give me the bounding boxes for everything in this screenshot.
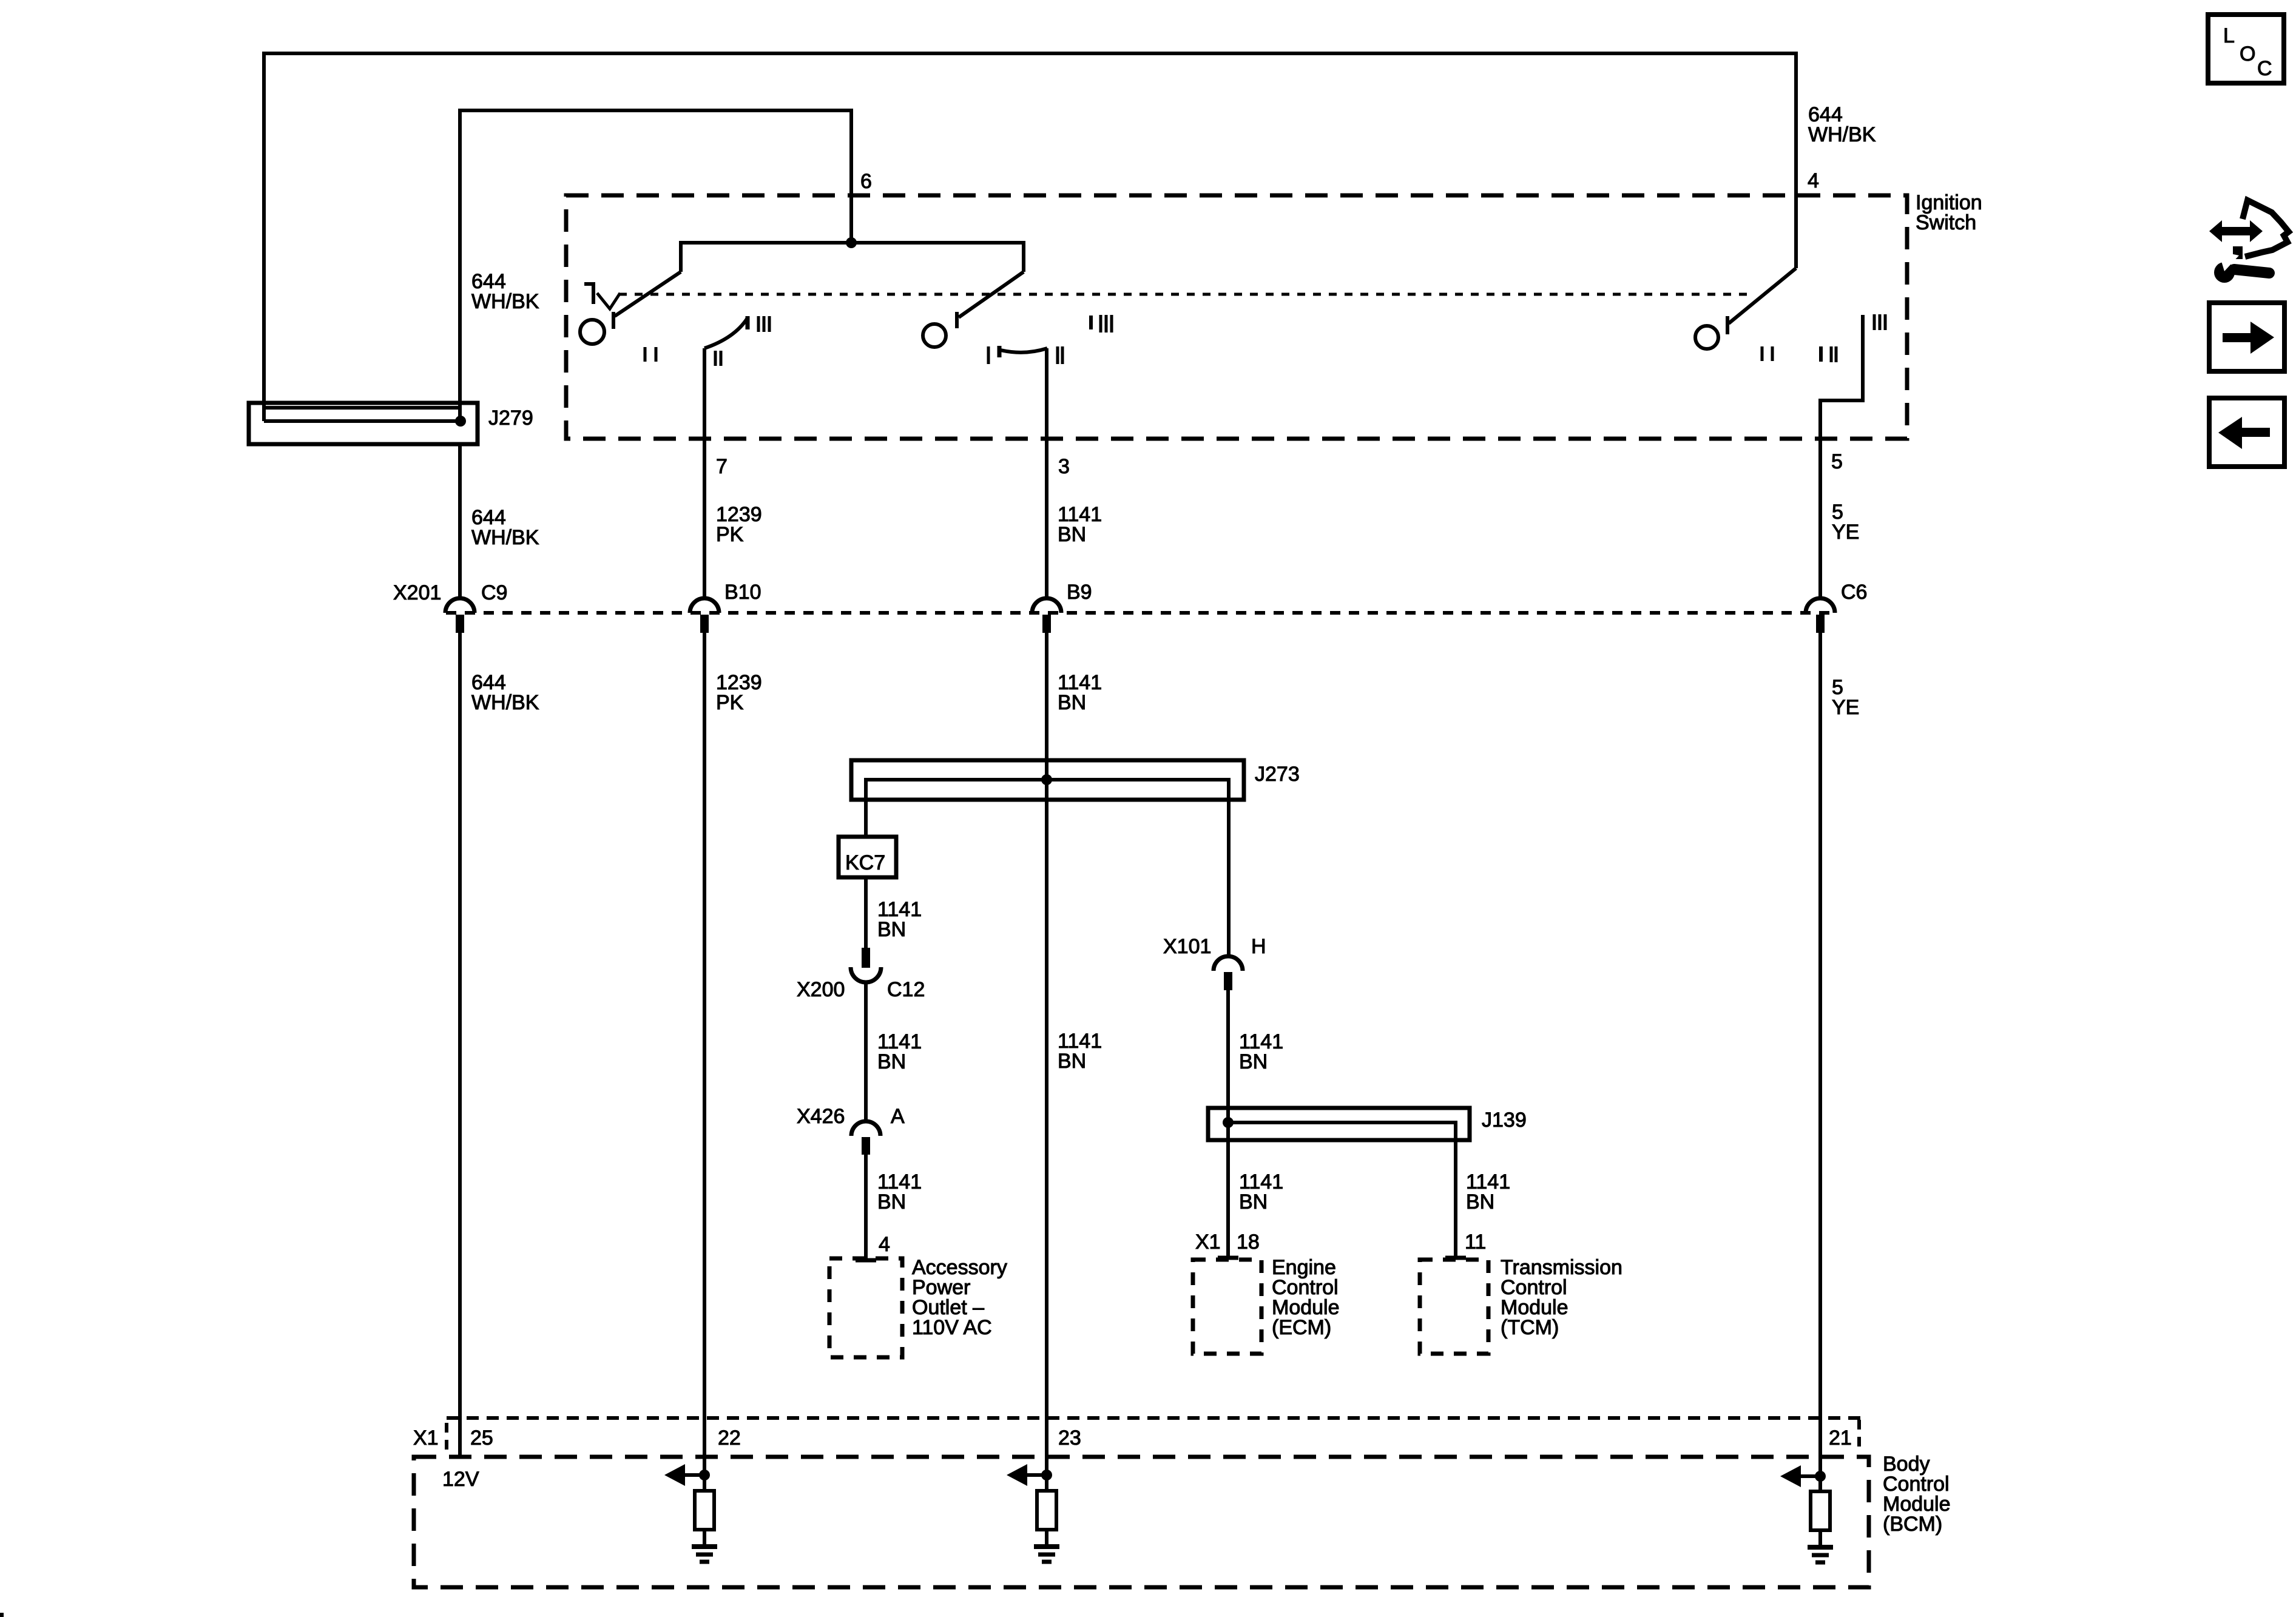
svg-text:18: 18 xyxy=(1237,1230,1260,1254)
component view icon: double arrow xyxy=(2209,220,2263,242)
BCM pin 22 arrow xyxy=(684,1473,704,1477)
detent marks pole 3 xyxy=(988,346,1062,364)
ground (pin 22) xyxy=(692,1544,717,1549)
svg-text:WH/BK: WH/BK xyxy=(471,290,539,313)
wire 1141 BN to BCM 23 xyxy=(1045,633,1048,1475)
wire 1239 PK to BCM 22 xyxy=(703,633,706,1475)
svg-text:BN: BN xyxy=(1058,691,1086,714)
svg-text:BN: BN xyxy=(1058,1050,1086,1073)
svg-text:7: 7 xyxy=(716,455,728,478)
wire X101 to ECM xyxy=(1226,990,1230,1256)
svg-text:22: 22 xyxy=(718,1426,741,1450)
svg-text:C9: C9 xyxy=(481,581,507,604)
svg-text:WH/BK: WH/BK xyxy=(471,691,539,714)
svg-text:WH/BK: WH/BK xyxy=(1808,123,1876,146)
svg-text:BN: BN xyxy=(1466,1190,1494,1214)
accessory power outlet box xyxy=(829,1258,902,1357)
wire 644 WH/BK top loop xyxy=(264,53,1796,421)
svg-text:(ECM): (ECM) xyxy=(1272,1316,1331,1339)
forward arrow box xyxy=(2209,303,2284,371)
detent marks pole 2 III xyxy=(758,316,769,332)
svg-text:21: 21 xyxy=(1829,1426,1852,1450)
svg-text:X200: X200 xyxy=(797,978,845,1001)
node bus junction xyxy=(846,237,857,248)
svg-text:11: 11 xyxy=(1465,1230,1486,1254)
detent marks pole 2 II xyxy=(715,351,721,366)
detent marks pole 1 xyxy=(645,347,656,362)
wire 5 YE to BCM 21 xyxy=(1818,633,1822,1476)
connector C9 xyxy=(445,598,474,633)
svg-text:KC7: KC7 xyxy=(845,851,885,874)
back arrow box xyxy=(2209,398,2284,467)
wire 6 horizontal run xyxy=(460,110,851,421)
detent marks pole 4 II right xyxy=(1831,346,1836,362)
ground (pin 21) xyxy=(1808,1545,1833,1550)
connector B9 xyxy=(1032,598,1061,633)
connector X1 dotted line xyxy=(447,1416,1863,1420)
lock V mark xyxy=(597,293,620,309)
pole 3 arrow tick xyxy=(998,346,1002,357)
wire below KC7 xyxy=(864,877,868,948)
splice J279 xyxy=(249,403,478,444)
BCM pin 23 node xyxy=(1041,1470,1052,1480)
dotted detent line xyxy=(619,293,1747,296)
svg-text:X201: X201 xyxy=(393,581,441,604)
wire 3 (1141 BN) inside switch xyxy=(1045,348,1048,596)
ground (pin 23) xyxy=(1034,1544,1059,1549)
switch pole 3 wiper arc xyxy=(1001,348,1047,353)
svg-text:6: 6 xyxy=(860,170,872,193)
wire below X200 xyxy=(864,982,868,1121)
svg-text:PK: PK xyxy=(716,691,744,714)
wire 7 (1239 PK) inside switch xyxy=(703,348,706,596)
svg-text:25: 25 xyxy=(470,1426,493,1450)
detent marks pole 4 III top xyxy=(1874,314,1885,330)
wire 644 WH/BK to BCM 25 xyxy=(458,445,462,1456)
body control module box xyxy=(414,1457,1869,1587)
svg-text:12V: 12V xyxy=(442,1468,479,1491)
svg-text:X1: X1 xyxy=(413,1426,439,1450)
splice J139 xyxy=(1208,1108,1470,1258)
BCM pin 21 arrow xyxy=(1800,1474,1820,1478)
switch pole 4 contact tick xyxy=(1726,316,1729,334)
ignition bus wire xyxy=(681,243,1024,272)
switch pole 3 contact tick xyxy=(955,312,959,328)
svg-text:PK: PK xyxy=(716,523,744,546)
switch pole 3 blade xyxy=(959,272,1024,317)
switch pole 4 circle xyxy=(1695,326,1718,349)
BCM pin 22 resistor xyxy=(703,1475,706,1545)
svg-text:BN: BN xyxy=(877,1050,906,1073)
svg-text:YE: YE xyxy=(1832,696,1859,719)
svg-text:23: 23 xyxy=(1058,1426,1081,1450)
svg-text:(TCM): (TCM) xyxy=(1501,1316,1559,1339)
switch pole 1 circle xyxy=(580,320,604,344)
splice J273 xyxy=(851,760,1244,956)
switch pole 3 circle xyxy=(923,324,946,347)
pole 2 arrow tick xyxy=(746,316,750,329)
switch pole 4 blade xyxy=(1729,268,1796,323)
svg-text:BN: BN xyxy=(1239,1050,1268,1073)
svg-text:C6: C6 xyxy=(1841,581,1867,604)
switch pole 2 wiper arc xyxy=(704,318,748,348)
detent marks pole 4 I xyxy=(1819,346,1823,362)
svg-text:B9: B9 xyxy=(1067,581,1092,604)
BCM pin 22 node xyxy=(699,1470,710,1480)
connector X101 H xyxy=(1214,956,1243,990)
connector X200 C12 xyxy=(851,948,881,982)
transmission control module box xyxy=(1420,1258,1488,1354)
svg-text:BN: BN xyxy=(877,918,906,941)
page corner mark xyxy=(0,1613,4,1617)
detent marks pole 3 upper III xyxy=(1101,315,1112,333)
svg-text:B10: B10 xyxy=(724,581,761,604)
switch pole 1 blade xyxy=(615,272,681,316)
fuse KC7 xyxy=(839,837,896,877)
LOC legend box xyxy=(2208,15,2284,83)
connector X201 dashed line xyxy=(446,611,1834,615)
svg-text:J273: J273 xyxy=(1255,763,1300,786)
svg-text:L: L xyxy=(2223,24,2235,47)
BCM pin 23 arrow xyxy=(1026,1473,1047,1477)
wire below X426 xyxy=(864,1155,868,1258)
svg-text:BN: BN xyxy=(877,1190,906,1214)
svg-text:4: 4 xyxy=(1808,169,1819,192)
svg-text:110V AC: 110V AC xyxy=(912,1316,992,1339)
svg-text:4: 4 xyxy=(879,1233,890,1256)
component view icon: door outline xyxy=(2243,200,2289,257)
BCM pin 23 resistor xyxy=(1045,1475,1048,1545)
svg-text:YE: YE xyxy=(1832,521,1859,544)
svg-text:(BCM): (BCM) xyxy=(1883,1513,1942,1536)
svg-text:5: 5 xyxy=(1831,450,1843,473)
BCM pin 21 resistor xyxy=(1818,1476,1822,1545)
X1 line left cap xyxy=(445,1423,448,1455)
detent marks pole 3 upper I xyxy=(1089,316,1093,329)
ignition switch box xyxy=(566,195,1907,439)
connector X426 A xyxy=(851,1121,880,1155)
svg-text:X1: X1 xyxy=(1195,1230,1221,1254)
svg-text:J139: J139 xyxy=(1482,1109,1527,1132)
svg-text:BN: BN xyxy=(1239,1190,1268,1214)
BCM pin 21 node xyxy=(1815,1471,1826,1482)
svg-text:A: A xyxy=(891,1105,905,1128)
switch pole 1 contact tick xyxy=(612,312,615,329)
X1 line right cap xyxy=(1857,1420,1861,1451)
svg-text:C12: C12 xyxy=(887,978,925,1001)
svg-text:H: H xyxy=(1251,935,1266,958)
svg-text:Switch: Switch xyxy=(1916,211,1976,234)
detent marks pole 4 II left xyxy=(1762,346,1772,361)
engine control module box xyxy=(1193,1258,1261,1354)
connector C6 xyxy=(1806,598,1835,633)
svg-text:O: O xyxy=(2240,42,2255,66)
svg-text:WH/BK: WH/BK xyxy=(471,526,539,549)
lock position symbol xyxy=(584,283,595,304)
component view icon: wrench xyxy=(2214,251,2269,283)
svg-text:3: 3 xyxy=(1058,455,1070,478)
wire 5 (YE) hook inside switch xyxy=(1820,315,1863,596)
svg-text:J279: J279 xyxy=(488,407,533,430)
svg-text:C: C xyxy=(2257,57,2272,80)
connector B10 xyxy=(690,598,719,633)
svg-text:X426: X426 xyxy=(797,1105,845,1128)
svg-text:X101: X101 xyxy=(1163,935,1211,958)
svg-text:BN: BN xyxy=(1058,523,1086,546)
